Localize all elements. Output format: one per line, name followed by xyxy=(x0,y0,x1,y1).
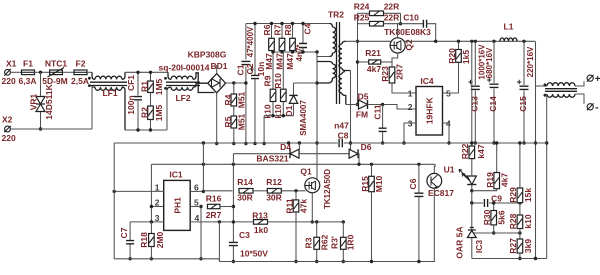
svg-text:6,3A: 6,3A xyxy=(19,76,37,86)
svg-text:C11: C11 xyxy=(373,104,383,119)
wire top rail xyxy=(246,23,330,25)
wire TL431 ref xyxy=(472,231,522,234)
resistor R1 xyxy=(140,71,165,106)
svg-text:C3: C3 xyxy=(239,230,250,240)
capacitor C7 xyxy=(119,222,134,261)
capacitor C13 xyxy=(468,41,486,144)
wire pin4 ground drop xyxy=(218,222,220,262)
svg-text:1R0: 1R0 xyxy=(346,234,356,250)
svg-text:220: 220 xyxy=(2,133,16,143)
svg-text:-: - xyxy=(595,103,598,114)
svg-text:TK80E08K3: TK80E08K3 xyxy=(384,27,431,37)
svg-text:M51: M51 xyxy=(236,113,246,130)
resistor R16 xyxy=(190,193,233,220)
svg-text:220*16V: 220*16V xyxy=(526,46,535,77)
capacitor CF1 xyxy=(126,71,142,132)
svg-text:C2: C2 xyxy=(245,63,255,74)
wire R24 R25 left vertical xyxy=(356,13,359,106)
svg-text:4k7: 4k7 xyxy=(500,173,510,187)
shunt regulator IC3 xyxy=(455,203,485,259)
node ground junctions xyxy=(202,141,301,144)
svg-text:Q1: Q1 xyxy=(300,166,312,176)
svg-text:M10: M10 xyxy=(374,175,384,192)
capacitor C6 xyxy=(408,164,423,263)
wire F1 to NTC1 xyxy=(35,71,50,73)
svg-text:R15: R15 xyxy=(360,176,370,192)
svg-text:C8: C8 xyxy=(338,130,349,140)
wire secondary ground rail xyxy=(344,142,547,144)
capacitor C3 xyxy=(229,230,268,263)
svg-text:1M5: 1M5 xyxy=(154,104,164,121)
svg-text:R11: R11 xyxy=(285,198,295,213)
wire NTC1 to F2 xyxy=(62,71,74,73)
wire BD1 AC stub xyxy=(216,65,218,74)
svg-text:4: 4 xyxy=(195,213,200,223)
input terminal X2 xyxy=(2,115,16,144)
svg-text:R27: R27 xyxy=(508,238,518,254)
wire X2 to LF1 xyxy=(10,128,92,130)
svg-text:R12: R12 xyxy=(266,177,282,187)
wire secondary bottom rail xyxy=(472,257,547,260)
svg-text:2R7: 2R7 xyxy=(206,210,222,220)
svg-text:D1: D1 xyxy=(284,105,294,116)
svg-text:R9: R9 xyxy=(263,75,273,86)
svg-text:KBP308G: KBP308G xyxy=(188,50,227,60)
svg-text:R4: R4 xyxy=(223,94,233,105)
svg-text:R3: R3 xyxy=(303,237,313,248)
wire LF1 to CF1 bottom rail xyxy=(125,129,167,131)
svg-text:C4: C4 xyxy=(302,23,312,34)
inductor L1 xyxy=(500,22,517,42)
output terminal minus xyxy=(575,94,599,114)
svg-text:14D511K: 14D511K xyxy=(44,83,54,119)
svg-text:VR1: VR1 xyxy=(29,93,39,110)
fuse F1 xyxy=(19,59,37,87)
resistor R30 xyxy=(482,201,507,234)
svg-text:NTC1: NTC1 xyxy=(45,59,67,69)
svg-text:100n: 100n xyxy=(126,95,136,114)
wire F2 to LF1 xyxy=(87,71,92,73)
svg-text:R62: R62 xyxy=(320,234,330,250)
wire IC1 pin6 row xyxy=(190,190,205,193)
wire TR2 secondary tap drop xyxy=(349,71,352,154)
choke LF2 xyxy=(164,72,214,130)
resistor R21 xyxy=(358,48,393,74)
svg-text:R22: R22 xyxy=(460,143,470,159)
svg-text:X1: X1 xyxy=(6,59,17,69)
svg-text:R19: R19 xyxy=(485,172,495,188)
svg-text:R3': R3' xyxy=(330,236,340,249)
resistor R14 xyxy=(237,177,267,203)
svg-text:R5: R5 xyxy=(223,116,233,127)
wire IC4 pin4 xyxy=(443,123,451,145)
svg-text:k47: k47 xyxy=(476,144,486,158)
resistor R23 xyxy=(380,53,416,93)
svg-text:F2: F2 xyxy=(76,59,86,69)
wire R24 R25 right vertical xyxy=(399,13,402,25)
resistor R5 xyxy=(223,113,247,145)
svg-text:PH1: PH1 xyxy=(172,197,182,214)
svg-text:D5: D5 xyxy=(358,92,369,102)
capacitor C8 xyxy=(334,120,349,147)
IC U4 19HFK xyxy=(408,76,451,135)
svg-text:LF2: LF2 xyxy=(175,93,190,103)
resistor R25 xyxy=(354,13,401,27)
capacitor C4 xyxy=(295,22,313,62)
svg-text:C13: C13 xyxy=(469,96,479,112)
diode D1 xyxy=(284,83,317,136)
svg-text:M51: M51 xyxy=(236,91,246,108)
resistor R3prime xyxy=(330,222,356,263)
transistor Q1 xyxy=(300,166,332,223)
label TK80E08K3 xyxy=(384,27,431,37)
svg-text:47k: 47k xyxy=(299,199,309,213)
bridge rectifier BD1 xyxy=(188,50,228,93)
IC U1 PH1 xyxy=(155,170,200,231)
wire IC1 supply node xyxy=(151,163,435,166)
svg-text:BAS321: BAS321 xyxy=(256,154,288,164)
svg-text:1k5: 1k5 xyxy=(461,50,471,64)
resistor R6 xyxy=(262,22,275,70)
svg-text:3: 3 xyxy=(155,213,160,223)
resistor R8 xyxy=(283,22,296,70)
svg-text:SMA4007: SMA4007 xyxy=(299,100,308,136)
wire BD1 plus bus xyxy=(226,82,246,84)
resistor R18 xyxy=(139,222,165,261)
diode D4 xyxy=(233,142,349,164)
svg-text:IC3: IC3 xyxy=(474,240,484,254)
svg-text:M47: M47 xyxy=(285,53,295,70)
svg-text:R16: R16 xyxy=(206,193,222,203)
svg-text:47*400V: 47*400V xyxy=(246,26,255,57)
svg-text:10*50V: 10*50V xyxy=(240,249,268,259)
opto LED xyxy=(467,159,476,203)
svg-text:R29: R29 xyxy=(508,187,518,203)
wire IC4 pin3 xyxy=(402,123,416,145)
svg-text:R18: R18 xyxy=(139,232,149,248)
resistor R10 xyxy=(273,52,286,119)
label sq-20I-00014 xyxy=(158,63,209,73)
svg-text:R6: R6 xyxy=(262,24,272,35)
svg-text:LF1: LF1 xyxy=(102,88,117,98)
wire bottom rail xyxy=(114,259,435,262)
wire BD1 minus to ground rail xyxy=(216,93,218,144)
svg-text:+: + xyxy=(595,74,600,85)
svg-text:R1: R1 xyxy=(140,81,150,92)
svg-text:R20: R20 xyxy=(447,48,457,64)
node BD1 minus xyxy=(215,142,218,145)
svg-text:R21: R21 xyxy=(365,48,381,58)
svg-text:5k6: 5k6 xyxy=(497,210,507,224)
svg-text:2,5A: 2,5A xyxy=(71,76,89,86)
svg-text:R13: R13 xyxy=(252,211,268,221)
resistor R4 xyxy=(223,83,247,116)
wire IC1 pin2 branch xyxy=(150,164,164,222)
fuse F2 xyxy=(71,59,89,87)
transistor Q2 xyxy=(390,24,414,53)
svg-text:2: 2 xyxy=(155,198,160,208)
resistor R28 xyxy=(508,213,533,239)
wire drain node xyxy=(315,52,318,180)
svg-text:22R: 22R xyxy=(384,13,400,23)
svg-text:n47: n47 xyxy=(334,120,349,130)
resistor R3 xyxy=(303,222,329,263)
svg-text:U1: U1 xyxy=(444,165,455,175)
varistor VR1 xyxy=(29,72,55,129)
node VR1 top xyxy=(39,71,42,74)
wire IC4 pin5 xyxy=(443,62,459,93)
wire LF1 to CF1 top rail xyxy=(125,71,168,73)
wire IC1 pin1 xyxy=(113,190,164,193)
svg-text:30R: 30R xyxy=(237,193,253,203)
svg-text:R14: R14 xyxy=(237,177,253,187)
wire source row xyxy=(190,220,254,223)
svg-text:R23: R23 xyxy=(380,66,390,82)
resistor R24 xyxy=(354,2,401,16)
resistor R2 xyxy=(140,104,165,131)
svg-text:R10: R10 xyxy=(273,73,283,89)
thermistor NTC1 xyxy=(42,59,68,87)
svg-text:C15: C15 xyxy=(518,96,528,112)
resistor R20 xyxy=(447,41,471,64)
capacitor C11 xyxy=(373,104,387,145)
wire output rail xyxy=(470,40,535,43)
resistor R27 xyxy=(508,238,533,260)
svg-text:TK12A50D: TK12A50D xyxy=(323,169,332,209)
svg-text:2M0: 2M0 xyxy=(155,231,165,248)
wire IC1 pin6 riser xyxy=(202,143,204,191)
svg-text:X2: X2 xyxy=(2,115,13,125)
svg-text:30R: 30R xyxy=(266,193,282,203)
wire gate row xyxy=(203,190,232,192)
svg-text:1k0: 1k0 xyxy=(254,225,268,235)
svg-text:680*16V: 680*16V xyxy=(485,47,494,78)
svg-text:1: 1 xyxy=(408,89,413,99)
capacitor C9 xyxy=(470,194,522,208)
svg-text:2: 2 xyxy=(408,102,413,112)
svg-text:C14: C14 xyxy=(488,96,498,112)
svg-text:R7: R7 xyxy=(272,24,282,35)
choke LF1 xyxy=(88,72,127,130)
svg-text:R2: R2 xyxy=(140,107,150,118)
svg-text:C1: C1 xyxy=(236,64,246,75)
resistor R13 xyxy=(252,211,345,236)
diode D5 xyxy=(346,92,416,120)
svg-text:L1: L1 xyxy=(504,22,514,32)
resistor R19 xyxy=(472,141,510,190)
svg-text:D4: D4 xyxy=(280,142,291,152)
svg-text:220: 220 xyxy=(2,76,16,86)
svg-text:CF1: CF1 xyxy=(126,75,136,91)
svg-text:3k9: 3k9 xyxy=(523,239,533,253)
svg-text:6: 6 xyxy=(194,182,199,192)
output terminal plus xyxy=(575,74,600,86)
svg-text:C6: C6 xyxy=(408,178,418,189)
resistor R15 xyxy=(360,164,384,263)
resistor R22 xyxy=(460,41,486,159)
wire bus to ground rail xyxy=(262,116,265,146)
svg-text:R25: R25 xyxy=(354,13,370,23)
node R4 top xyxy=(232,81,235,84)
wire X1 to F1 xyxy=(10,71,21,73)
svg-text:1M5: 1M5 xyxy=(154,78,164,95)
svg-text:R28: R28 xyxy=(508,213,518,229)
svg-text:sq-20I-00014: sq-20I-00014 xyxy=(158,63,209,73)
wire secondary top rail xyxy=(346,40,472,43)
wire IC1 pin5 ground drop xyxy=(199,205,202,261)
resistor R9 xyxy=(263,50,276,118)
wire left ground drop xyxy=(113,143,115,259)
svg-text:TR2: TR2 xyxy=(328,10,344,20)
capacitor C2 xyxy=(245,22,266,145)
wire VCC2 taps xyxy=(370,163,421,166)
resistor R12 xyxy=(266,177,305,203)
svg-text:R30: R30 xyxy=(482,209,492,225)
resistor R11 xyxy=(285,191,309,263)
optocoupler U1 xyxy=(427,164,471,261)
svg-text:D6: D6 xyxy=(361,142,372,152)
svg-text:FM: FM xyxy=(356,110,368,120)
svg-text:1: 1 xyxy=(155,182,160,192)
resistor R7 xyxy=(272,22,285,70)
input terminal X1 xyxy=(2,59,17,87)
capacitor C15 xyxy=(517,41,535,144)
svg-text:F1: F1 xyxy=(23,59,33,69)
svg-text:R8: R8 xyxy=(283,24,293,35)
svg-text:k10: k10 xyxy=(523,214,533,228)
svg-text:IC1: IC1 xyxy=(169,170,183,180)
transformer TR2 xyxy=(317,10,351,105)
svg-text:BD1: BD1 xyxy=(210,61,227,71)
svg-text:2R7: 2R7 xyxy=(394,64,404,80)
capacitor C14 xyxy=(485,41,499,144)
wire snubber bus xyxy=(272,50,330,56)
diode D6 xyxy=(349,142,372,164)
svg-text:IC4: IC4 xyxy=(420,76,434,86)
node VR1 bottom xyxy=(39,127,42,130)
svg-text:EC817: EC817 xyxy=(428,188,454,198)
wire IC1 pin3 xyxy=(130,220,164,223)
svg-text:15k: 15k xyxy=(523,188,533,202)
resistor R29 xyxy=(508,141,533,215)
wire R9 R10 D1 bus xyxy=(264,114,293,117)
output choke xyxy=(534,41,577,258)
capacitor C10 xyxy=(398,13,436,42)
svg-text:C7: C7 xyxy=(119,227,129,238)
capacitor C1 xyxy=(236,24,256,146)
svg-text:R24: R24 xyxy=(354,2,370,12)
wire primary ground rail xyxy=(114,142,338,144)
svg-text:OAR 5A: OAR 5A xyxy=(455,226,465,258)
wire supply drop to C3 xyxy=(232,154,235,243)
svg-text:19HFK: 19HFK xyxy=(425,96,435,124)
svg-text:C10: C10 xyxy=(403,13,419,23)
svg-text:22R: 22R xyxy=(384,2,400,12)
